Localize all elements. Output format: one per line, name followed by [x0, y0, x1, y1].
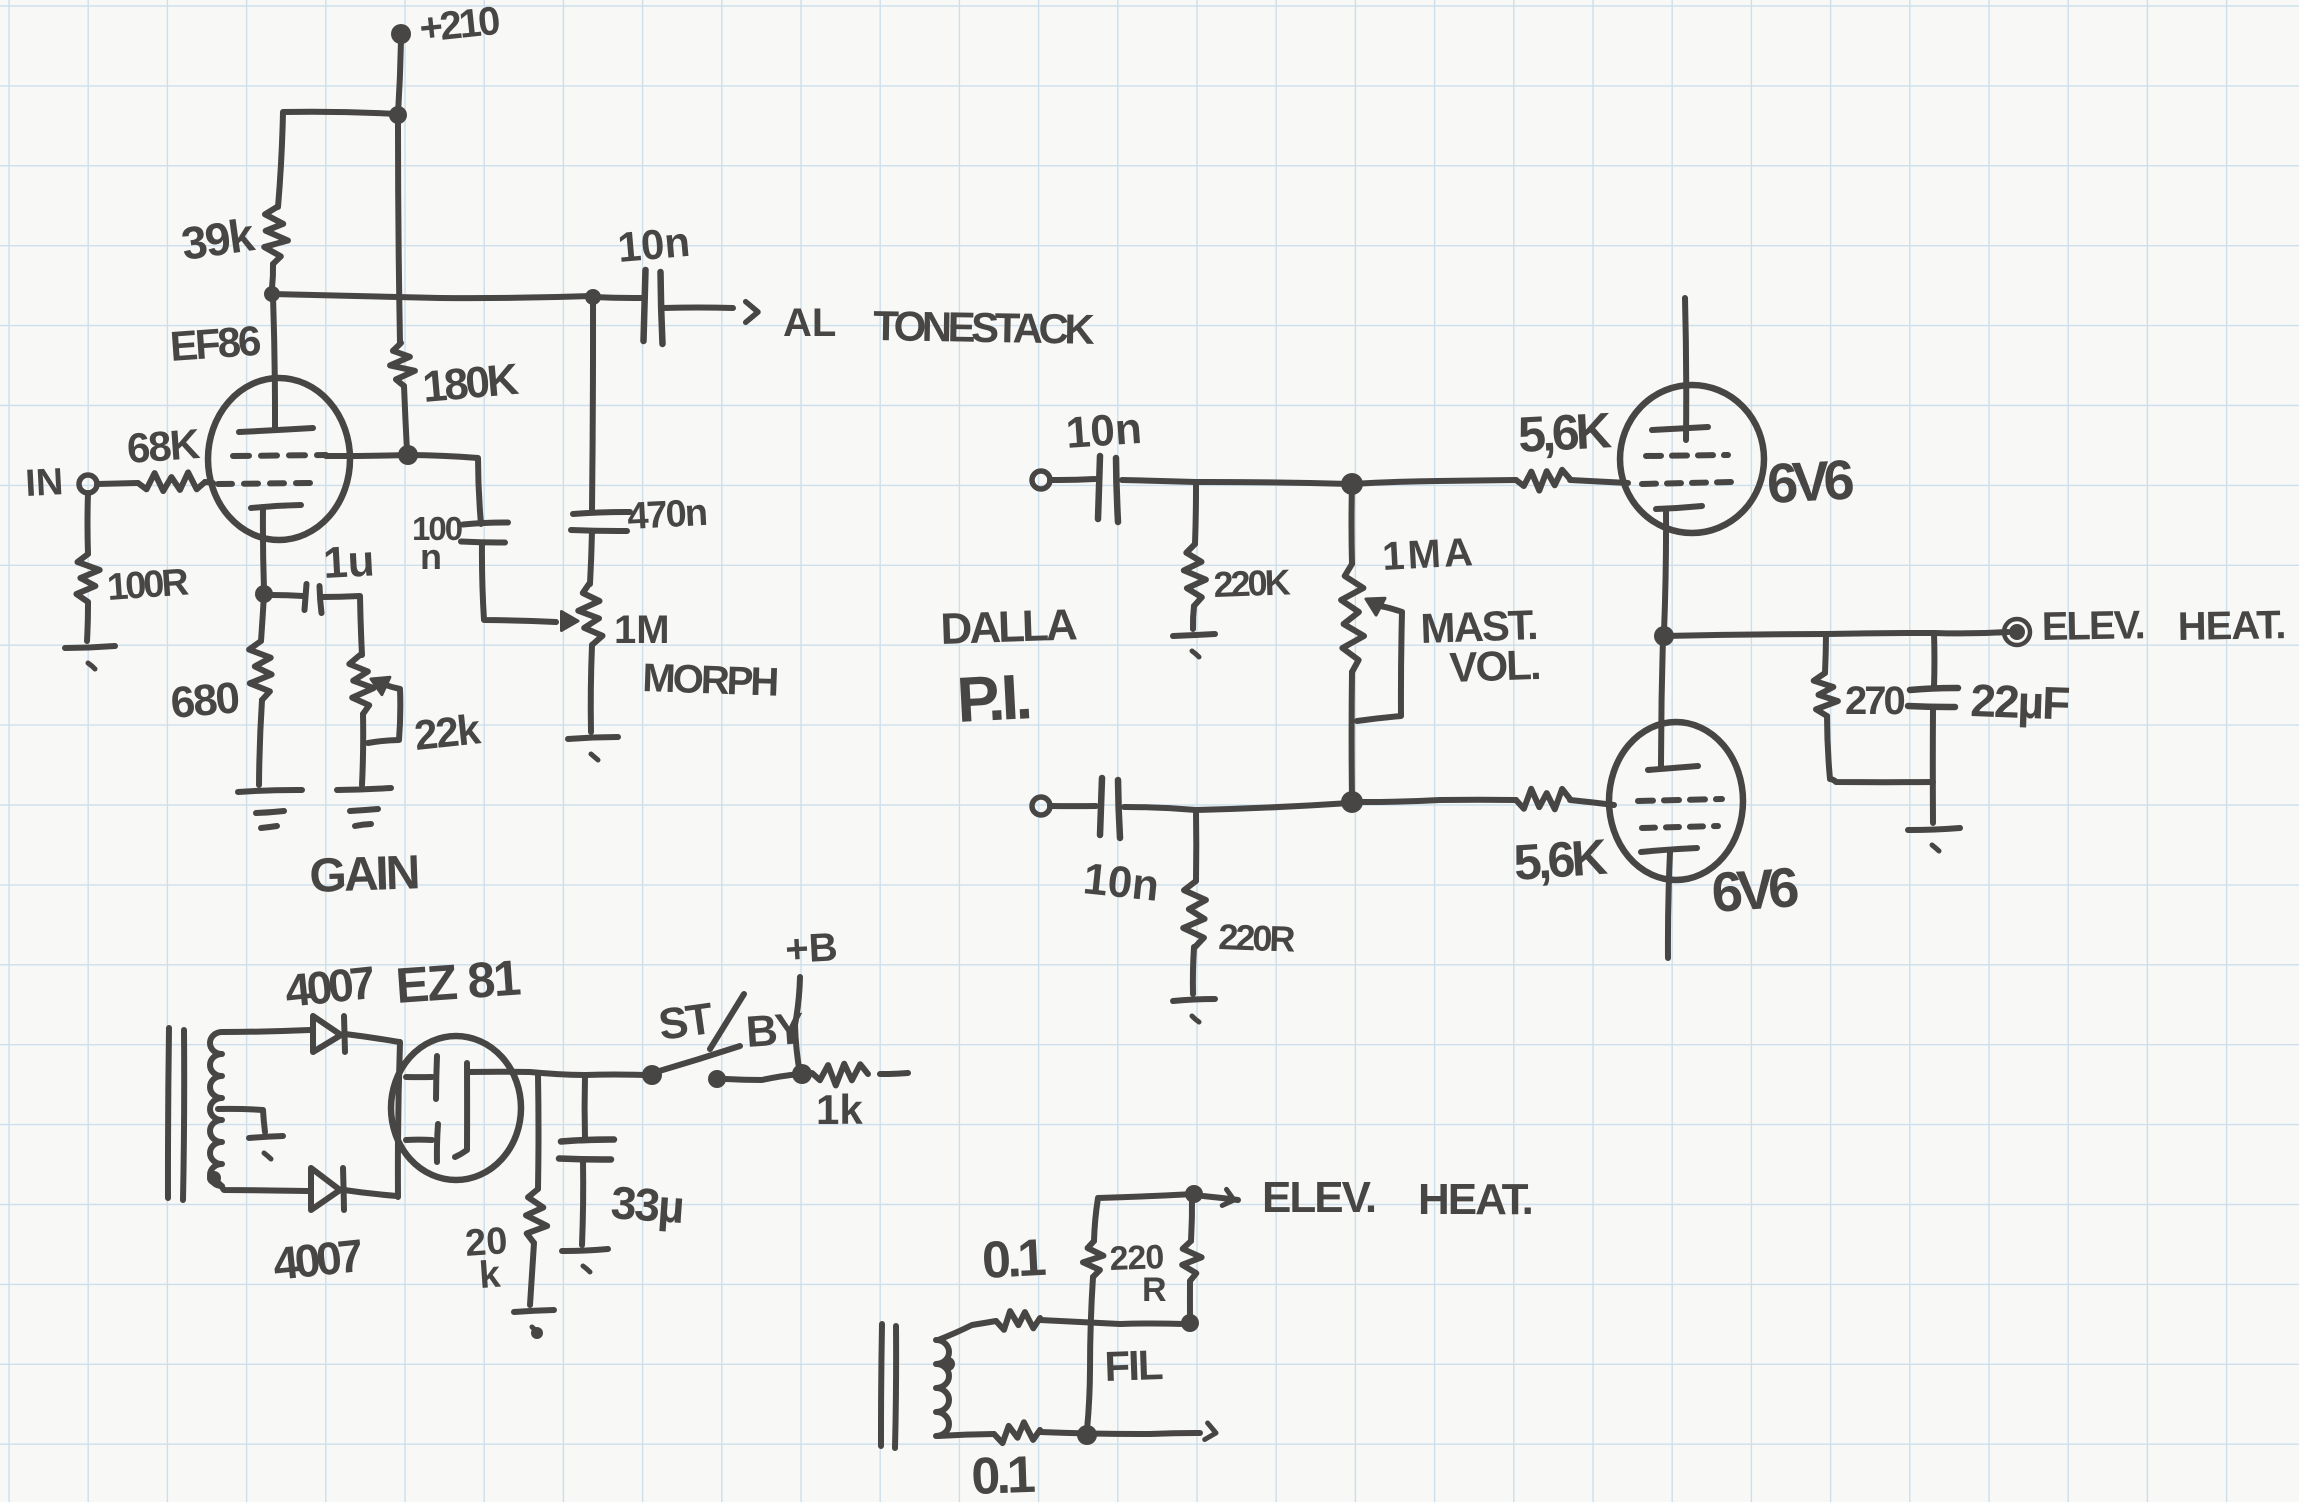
resistor 680 — [249, 641, 272, 700]
ground 22uF — [1908, 828, 1960, 830]
node ELEV HEAT — [2009, 624, 2025, 640]
HV top lead — [222, 1030, 310, 1032]
resistor 20k — [535, 1075, 542, 1189]
wire 180k to screen junction — [404, 386, 407, 451]
svg-text:n: n — [420, 536, 442, 577]
ground 1M — [568, 737, 618, 739]
resistor 1k — [812, 1064, 868, 1086]
wire join diodes — [398, 1042, 400, 1197]
wire input to 68k — [97, 483, 138, 484]
svg-text:6V6: 6V6 — [1709, 855, 1800, 924]
wire 270 to bottom link — [1827, 716, 1933, 782]
svg-text:4007: 4007 — [271, 1229, 365, 1290]
center tap wire — [218, 1109, 265, 1132]
wire 33u to ground — [582, 1161, 583, 1245]
svg-text:EF86: EF86 — [168, 317, 261, 370]
svg-text:HEAT.: HEAT. — [1418, 1175, 1532, 1224]
tube 6V6 lower envelope — [1609, 722, 1743, 880]
svg-text:1k: 1k — [816, 1086, 863, 1133]
capacitor 470n — [573, 512, 630, 514]
svg-text:IN: IN — [24, 461, 64, 505]
wiper link 22k — [368, 684, 400, 743]
wire 100R to ground — [87, 602, 88, 641]
wire junction to 39k top — [278, 112, 398, 207]
switch ST/BY pole — [642, 1065, 662, 1085]
svg-text:4007: 4007 — [283, 956, 377, 1017]
resistor 68K — [138, 472, 205, 491]
EZ81 plate upper — [406, 1074, 432, 1080]
wire 22uF to ground — [1930, 709, 1936, 823]
wire throw to +B node — [726, 1074, 800, 1080]
transformer core — [168, 1028, 169, 1198]
wire 39k bottom to node B — [272, 264, 273, 288]
svg-text:220R: 220R — [1218, 916, 1296, 960]
svg-text:22k: 22k — [412, 705, 483, 759]
wire 470n from junction C — [592, 297, 593, 510]
svg-text:0.1: 0.1 — [970, 1446, 1035, 1502]
resistor 220R elev left leg — [1094, 1194, 1194, 1241]
filament winding — [936, 1340, 949, 1436]
potentiometer 1M MORPH — [578, 584, 602, 645]
switch ST/BY lever — [656, 1046, 740, 1072]
wire 1M to ground — [591, 645, 592, 732]
wire 5.6k to 6V6 grid lower — [1570, 800, 1614, 805]
EF86 plate lead — [273, 296, 275, 428]
choke 0.1 lower — [994, 1422, 1040, 1443]
svg-text:MORPH: MORPH — [642, 656, 778, 705]
filament top lead — [938, 1321, 996, 1340]
diode 4007 lower — [311, 1168, 340, 1210]
junction D (screen node) — [398, 445, 418, 465]
ground 20k — [514, 1310, 554, 1312]
svg-text:ELEV.: ELEV. — [2041, 603, 2144, 649]
EF86 cathode — [251, 505, 301, 508]
potentiometer 22k GAIN — [349, 655, 373, 714]
resistor 270 — [1825, 634, 1826, 673]
svg-text:680: 680 — [169, 673, 241, 728]
svg-text:GAIN: GAIN — [309, 846, 419, 903]
wire 470n to 1M pot — [590, 531, 592, 584]
svg-text:VOL.: VOL. — [1449, 641, 1541, 691]
svg-text:1MA: 1MA — [1381, 530, 1477, 579]
tube EF86 envelope — [208, 378, 350, 540]
wire junction A down to 180k — [398, 116, 400, 343]
6V6 lower grids (dashed) — [1638, 799, 1722, 801]
EF86 screen grid (dashed) — [233, 455, 326, 456]
ground center tap — [249, 1136, 283, 1138]
svg-text:HEAT.: HEAT. — [2177, 603, 2285, 649]
6V6 upper cathode — [1656, 506, 1702, 509]
wire B+ rail — [530, 1072, 645, 1075]
6V6 lower cathode lead — [1668, 852, 1670, 958]
filament transformer core — [881, 1324, 882, 1446]
svg-text:0.1: 0.1 — [981, 1229, 1047, 1290]
resistor 220R elev right leg — [1191, 1194, 1192, 1241]
EF86 cathode lead — [263, 507, 264, 590]
wire junction C to 10n cap — [593, 297, 641, 298]
wire diode upper to EZ81 — [345, 1034, 399, 1042]
input terminal — [79, 475, 97, 493]
svg-text:FIL: FIL — [1104, 1341, 1164, 1390]
resistor 180K — [390, 343, 415, 386]
wire node right arrow — [1203, 1196, 1238, 1200]
wire 1MA down to lower node — [1349, 672, 1355, 800]
resistor 220K — [1195, 482, 1196, 544]
capacitor 10n PI lower — [1100, 778, 1102, 835]
wire PI lower to 5.6k — [1352, 800, 1516, 802]
node B (EF86 plate node) — [264, 286, 280, 302]
svg-text:k: k — [478, 1254, 503, 1297]
wire 10n lower to PI node — [1124, 803, 1350, 810]
wire 1u to 22k pot — [321, 596, 362, 655]
resistor 100R — [76, 554, 99, 602]
winding tap dot — [207, 1171, 221, 1185]
junction +B — [792, 1064, 812, 1084]
arrow into 1MA — [1366, 598, 1385, 615]
svg-text:BY: BY — [744, 1004, 805, 1057]
choke 0.1 upper — [996, 1311, 1040, 1330]
junction fil upper right — [1181, 1314, 1199, 1332]
node +210 supply — [391, 24, 411, 44]
svg-text:+210: +210 — [417, 0, 501, 51]
ground 33u — [562, 1249, 608, 1251]
capacitor 22uF — [1931, 633, 1937, 687]
svg-text:ST: ST — [656, 994, 717, 1050]
wire 220R to ground — [1193, 947, 1194, 994]
capacitor 1u — [305, 584, 307, 610]
svg-text:P.I.: P.I. — [955, 660, 1031, 736]
capacitor 10n output — [644, 270, 646, 341]
junction PI upper — [1341, 473, 1363, 495]
svg-text:+B: +B — [784, 925, 838, 972]
6V6 upper grids (dashed) — [1646, 455, 1728, 456]
ground input — [65, 646, 115, 648]
EF86 control grid (dashed) — [218, 483, 310, 484]
wire 10n to PI node — [1122, 480, 1350, 484]
wire 100n down and right to 1M pot — [482, 543, 556, 622]
svg-text:DALLA: DALLA — [940, 600, 1078, 654]
ground 220K — [1173, 634, 1215, 636]
svg-text:R: R — [1142, 1271, 1167, 1309]
wire 68k to EF86 grid — [205, 482, 213, 483]
junction PI lower — [1341, 791, 1363, 813]
wire 20k to ground — [530, 1243, 534, 1305]
svg-text:5,6K: 5,6K — [1512, 829, 1609, 891]
resistor 5,6K upper — [1516, 470, 1570, 491]
cathode junction node K — [1654, 626, 1674, 646]
wire PI upper input — [1050, 479, 1095, 480]
resistor 220R — [1193, 810, 1199, 881]
node elev heat bottom — [1185, 1185, 1203, 1203]
svg-text:6V6: 6V6 — [1765, 448, 1855, 515]
wire diode lower to join — [344, 1190, 397, 1196]
svg-text:270: 270 — [1845, 679, 1904, 723]
wire fil lower — [1040, 1432, 1200, 1434]
svg-text:180K: 180K — [421, 355, 521, 412]
wire 5.6k to 6V6 grid upper — [1570, 480, 1628, 483]
PI lower input terminal — [1032, 797, 1050, 815]
wire PI node to 5.6k upper — [1352, 480, 1516, 484]
svg-text:68K: 68K — [125, 420, 201, 472]
PI upper input terminal — [1032, 471, 1050, 489]
capacitor 10n PI upper — [1098, 456, 1100, 519]
wire left leg down to fil — [1087, 1277, 1093, 1430]
potentiometer 1MA master vol — [1349, 484, 1356, 564]
filament bottom lead — [938, 1434, 994, 1436]
svg-text:10n: 10n — [1081, 854, 1162, 911]
6V6 lower plate — [1648, 766, 1698, 770]
svg-text:22µF: 22µF — [1970, 674, 2070, 729]
6V6 upper plate lead — [1685, 298, 1686, 440]
wire 10n to arrow — [663, 305, 733, 312]
svg-text:10n: 10n — [616, 218, 692, 271]
tube 6V6 upper envelope — [1620, 385, 1764, 533]
EZ81 plate lower — [406, 1137, 432, 1143]
svg-text:470n: 470n — [626, 492, 707, 538]
resistor 5,6K lower — [1516, 789, 1570, 810]
svg-text:220K: 220K — [1213, 561, 1291, 605]
svg-text:ELEV.: ELEV. — [1262, 1173, 1375, 1222]
resistor 39k — [264, 207, 288, 264]
svg-text:AL: AL — [783, 301, 836, 345]
ground 220R — [1173, 999, 1215, 1001]
capacitor 33u — [582, 1076, 588, 1139]
wire 220K to ground — [1193, 606, 1194, 629]
svg-text:33µ: 33µ — [609, 1176, 684, 1233]
diode 4007 upper — [313, 1016, 341, 1052]
svg-text:10n: 10n — [1064, 404, 1143, 458]
svg-text:EZ 81: EZ 81 — [394, 949, 522, 1014]
wire node K to 6V6 lower — [1661, 636, 1663, 766]
EF86 screen wire to junction D — [326, 455, 407, 456]
6V6 upper plate — [1652, 427, 1708, 430]
svg-text:1M: 1M — [614, 608, 670, 652]
6V6 upper cathode lead — [1664, 509, 1666, 632]
arrow into 1M pot — [562, 612, 579, 631]
wire fil upper — [1040, 1320, 1184, 1324]
svg-text:TONESTACK: TONESTACK — [873, 302, 1095, 353]
wire 680 to ground — [259, 700, 262, 785]
wire +B up — [795, 977, 800, 1074]
junction fil lower — [1077, 1425, 1097, 1445]
wire cathode node to 680 — [261, 594, 264, 641]
EZ81 cathode — [455, 1063, 467, 1157]
arrow to tonestack — [746, 302, 758, 323]
transformer HV winding — [210, 1032, 222, 1186]
svg-text:100R: 100R — [106, 561, 190, 609]
svg-text:5,6K: 5,6K — [1517, 402, 1613, 463]
EF86 plate — [239, 428, 313, 432]
HV bottom lead — [216, 1180, 308, 1191]
ground 22k — [337, 788, 391, 790]
wire screen node to 100n — [408, 455, 481, 524]
wiper link 1MA — [1357, 605, 1402, 721]
junction C (470n tap) — [585, 289, 601, 305]
wire node K to elev heat — [1664, 632, 2008, 636]
EZ81 cathode output lead — [468, 1069, 530, 1075]
wire PI lower input — [1050, 803, 1096, 809]
6V6 lower cathode — [1641, 848, 1697, 852]
capacitor 100n — [463, 522, 508, 524]
svg-text:1u: 1u — [322, 536, 376, 588]
wire cathode node to 1u cap — [266, 595, 303, 596]
junction A (B+ rail) — [389, 106, 407, 124]
wire input down to 100R — [85, 493, 92, 554]
filament winding dot — [941, 1357, 955, 1371]
tube EZ81 envelope — [391, 1036, 521, 1180]
svg-text:39k: 39k — [178, 208, 258, 270]
wire 22k to ground — [362, 714, 363, 785]
ground 680 — [238, 790, 302, 792]
wire +210 down to junction — [398, 40, 401, 114]
switch ST/BY throw — [708, 1070, 726, 1088]
arrow into 22k pot — [371, 677, 390, 694]
cathode junction node — [255, 585, 273, 603]
wire node B to coupling cap — [272, 294, 592, 298]
